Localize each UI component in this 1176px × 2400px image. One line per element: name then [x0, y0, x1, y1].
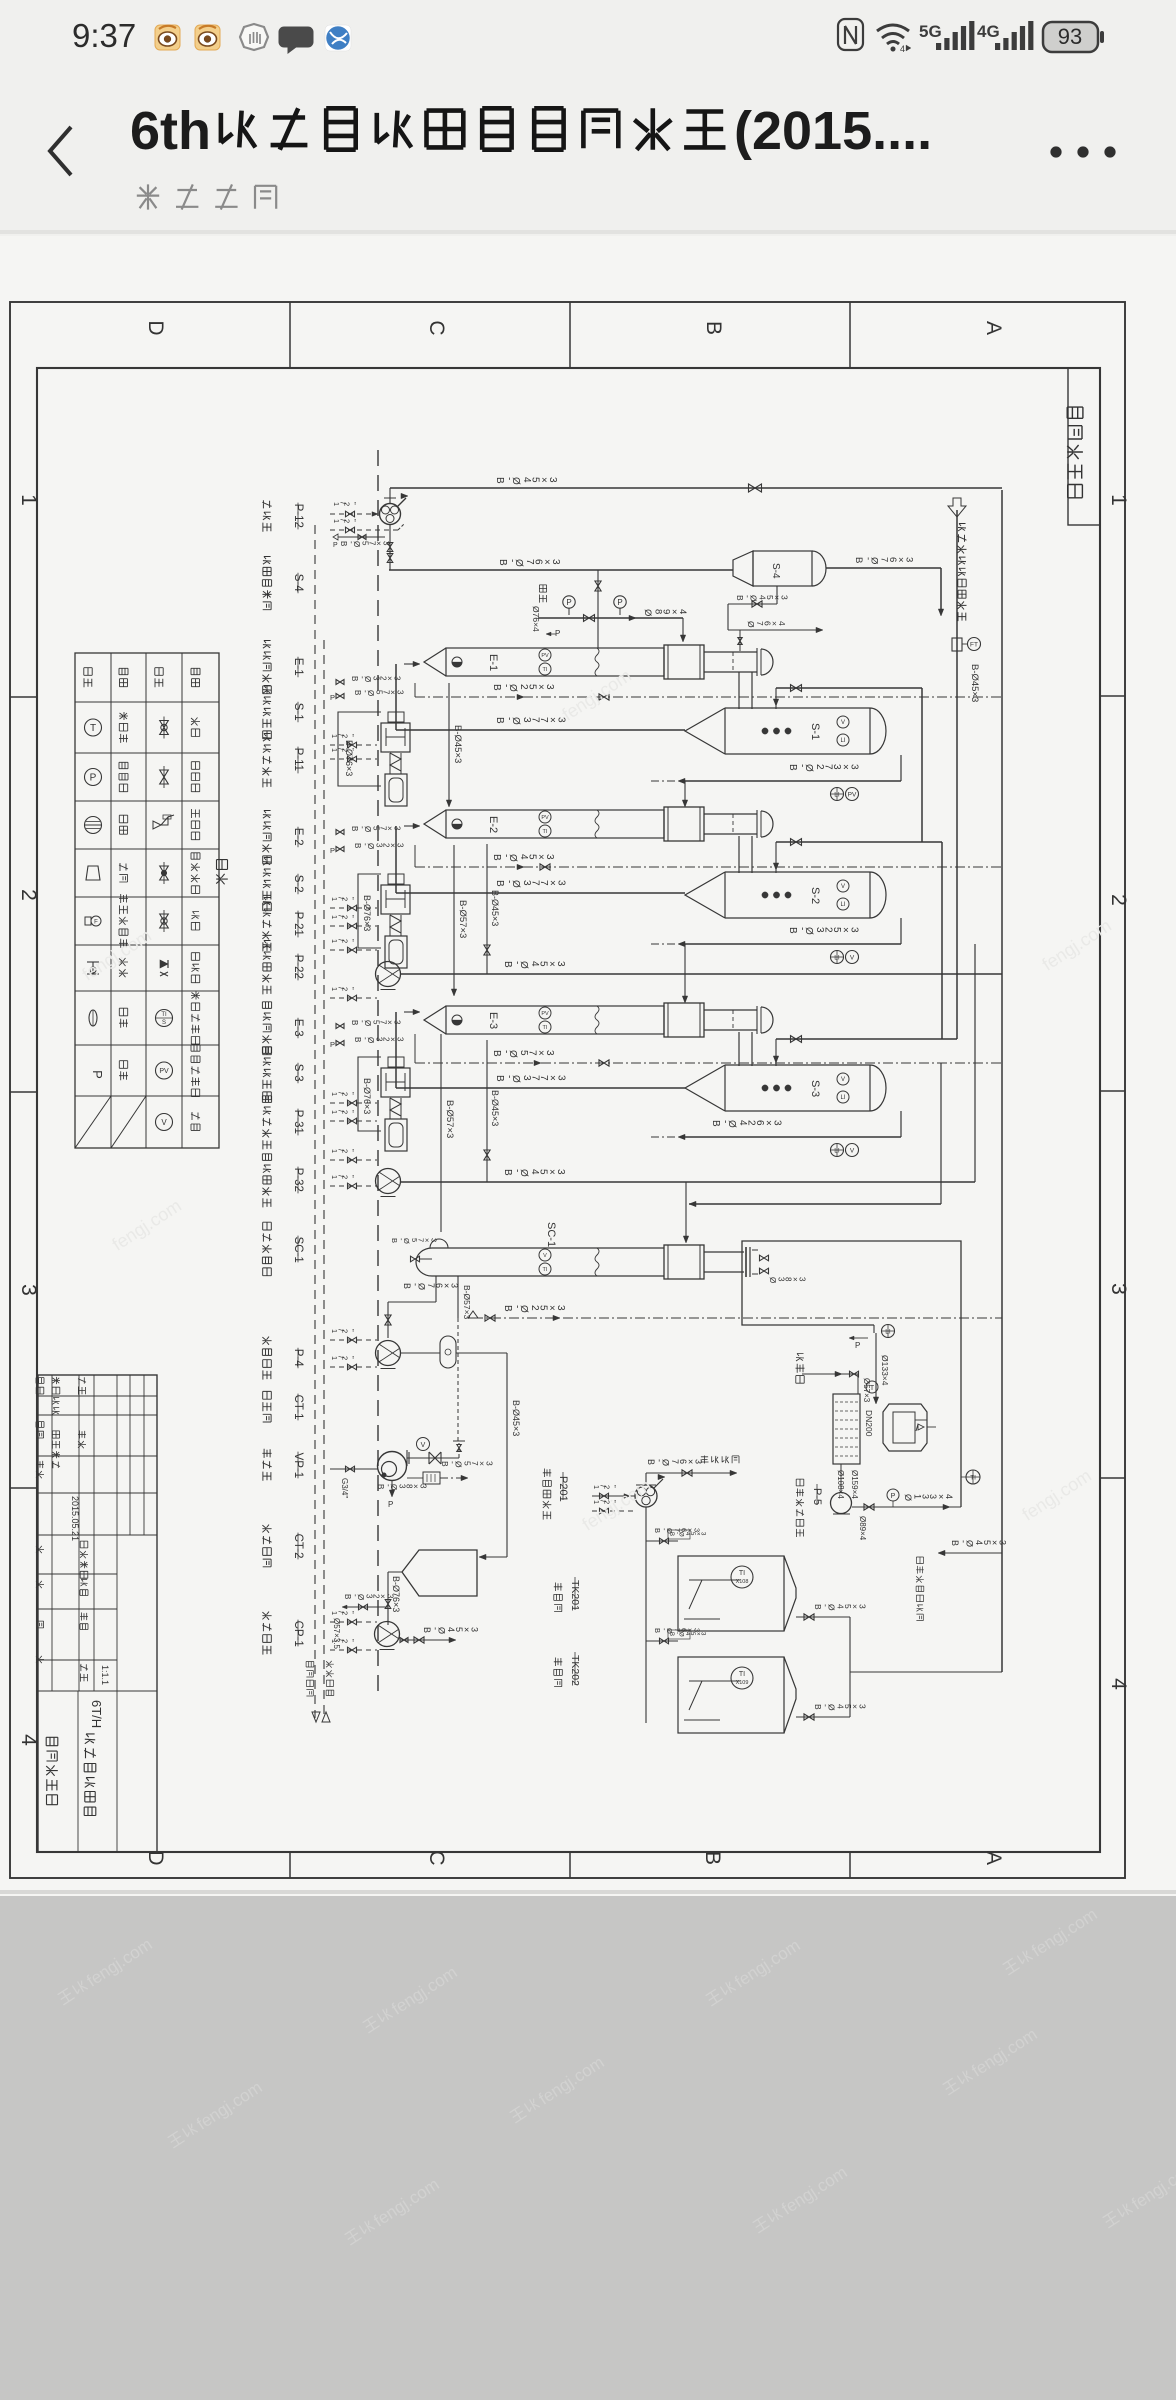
- svg-text:6th: 6th: [130, 101, 211, 161]
- wire cooling return upper: [689, 1203, 941, 1205]
- flush lines P201: [592, 1495, 635, 1497]
- wire hotwell to tower: [875, 1333, 877, 1400]
- svg-text:PV: PV: [541, 815, 549, 821]
- wire feed line vertical: [956, 510, 958, 1039]
- wire S4 return branch to E-1 duct: [739, 630, 741, 651]
- wire E-1 sample B-25: [414, 683, 416, 697]
- svg-text:B-Ø76×3: B-Ø76×3: [362, 895, 372, 931]
- svg-text:T: T: [90, 723, 96, 734]
- VP-1 suction: [330, 1468, 378, 1470]
- primary water line 一次水: [796, 1354, 805, 1384]
- separator S-3: [685, 1065, 725, 1111]
- wire B-76 to S-4: [389, 569, 733, 571]
- svg-text:B-Ø76×3: B-Ø76×3: [362, 1078, 372, 1114]
- svg-text:P: P: [566, 598, 571, 607]
- battery 93: [1043, 22, 1104, 52]
- svg-text:C: C: [425, 320, 448, 335]
- svg-text:LI: LI: [840, 1095, 845, 1101]
- title block small texts: [36, 1378, 44, 1394]
- wire S-4 outlet B-76: [826, 567, 941, 569]
- title block drawing name: [46, 1737, 58, 1804]
- wire CP-1 discharge: [400, 1639, 453, 1641]
- cooling tower fan unit: [883, 1404, 927, 1451]
- title block grid: [38, 1375, 157, 1852]
- screw pump P-11: [388, 712, 404, 722]
- title strip box 工艺流程图: [1068, 368, 1100, 525]
- svg-text:TI: TI: [161, 1012, 167, 1018]
- svg-text:S-2: S-2: [809, 887, 821, 904]
- screw pump P-31: [388, 1057, 404, 1067]
- icon 5G signal: [919, 21, 974, 50]
- pump P-12 lobe: [380, 504, 401, 525]
- svg-text:B: B: [702, 321, 725, 335]
- vacuum pump VP-1: [378, 1452, 407, 1481]
- svg-text:F: F: [94, 920, 98, 926]
- wire P-5 discharge: [852, 1506, 961, 1508]
- flush lines P-31: [330, 1102, 377, 1104]
- wire B-45 main cooling header vertical: [1001, 490, 1003, 1672]
- screw pump P-21: [388, 874, 404, 884]
- steam line: [538, 617, 683, 619]
- svg-text:6T/H: 6T/H: [89, 1700, 104, 1728]
- wire S-3 vent: [775, 1039, 777, 1066]
- wire S4 vapor drop: [940, 568, 942, 610]
- svg-text:E-1: E-1: [487, 654, 499, 671]
- instruments S-1 transfer: [831, 788, 844, 801]
- wire to SC-1 head: [685, 1182, 687, 1241]
- svg-text:P: P: [891, 1493, 896, 1500]
- svg-text:T: T: [870, 1385, 875, 1392]
- icon wifi: [877, 25, 911, 54]
- wire CT-2 outlet: [388, 1571, 402, 1573]
- svg-text:TI: TI: [543, 1025, 548, 1031]
- VP-1 top nozzle relief: [407, 1457, 459, 1459]
- wire S2 vent drop: [941, 842, 943, 1039]
- svg-text:X109: X109: [736, 1680, 749, 1686]
- subtitle 文件预览: [137, 184, 276, 209]
- svg-text:1: 1: [1107, 494, 1130, 506]
- svg-text:S: S: [162, 1020, 166, 1026]
- svg-text:S-4: S-4: [770, 563, 781, 579]
- zone ticks right: [1100, 695, 1125, 697]
- svg-text:B-Ø45×3: B-Ø45×3: [511, 1400, 521, 1436]
- TK201 outlet: [796, 1616, 850, 1618]
- label steam 蒸汽: [539, 585, 546, 603]
- SC-1 vent valves: [760, 1255, 769, 1261]
- svg-text:B-Ø57×3: B-Ø57×3: [457, 900, 468, 938]
- wire steam condensate E1-E2 B-45: [448, 683, 450, 803]
- outer border frame: [10, 302, 1125, 1878]
- cooling tower CT-2: [402, 1550, 477, 1596]
- wire condensate E2-E3 B-57: [453, 845, 455, 992]
- svg-text:TI: TI: [543, 1267, 548, 1273]
- wire S-3 transfer B-426: [900, 1111, 902, 1137]
- legend header row: [84, 668, 92, 688]
- instruments S-3 transfer: [831, 1144, 844, 1157]
- feed inlet arrow: [948, 498, 966, 517]
- wire S-3 circulation B-377: [396, 1087, 685, 1089]
- svg-text:V: V: [421, 1442, 426, 1449]
- svg-text:P: P: [855, 1341, 860, 1350]
- svg-text:V: V: [161, 1118, 167, 1127]
- svg-text:DN200: DN200: [864, 1410, 874, 1437]
- wire sample B-25 bottom: [468, 1311, 478, 1318]
- wire P-32 discharge B-45: [401, 1181, 975, 1183]
- flow transmitter FT: [952, 638, 962, 651]
- TK202 outlet: [796, 1716, 850, 1718]
- vessel CT-1: [440, 1336, 456, 1368]
- svg-text:1:1.1: 1:1.1: [100, 1665, 110, 1685]
- svg-text:LI: LI: [840, 902, 845, 908]
- svg-text:P: P: [330, 1040, 335, 1049]
- svg-text:TI: TI: [739, 1570, 745, 1577]
- zone ticks left: [10, 696, 37, 698]
- wire S-4 drain: [776, 586, 778, 604]
- svg-text:V: V: [850, 1148, 855, 1155]
- hot well drain instrument: [882, 1325, 895, 1338]
- svg-text:SC-1: SC-1: [545, 1222, 557, 1247]
- battery limit dashed line main: [377, 450, 379, 1700]
- icon 4G signal: [977, 21, 1033, 50]
- svg-text:S-1: S-1: [809, 723, 821, 740]
- svg-text:B-Ø57×3: B-Ø57×3: [444, 1100, 455, 1138]
- flush lines P-4: [330, 1339, 377, 1341]
- wire E-3 duct to S-3: [738, 1032, 740, 1066]
- instrument on cooling header: [966, 1470, 980, 1484]
- svg-text:4: 4: [17, 1734, 40, 1746]
- legend title 图样: [216, 860, 228, 885]
- boundary line arrows bottom: [312, 1712, 320, 1722]
- wire E-2 drain to P22 line: [486, 844, 488, 974]
- icon blue globe: [325, 25, 351, 51]
- flush lines P-22: [330, 949, 377, 951]
- svg-text:4: 4: [1107, 1678, 1130, 1690]
- wire E-3 sample B-57: [414, 1034, 416, 1063]
- svg-text:93: 93: [1058, 24, 1082, 49]
- evaporator E-2: [424, 810, 446, 838]
- svg-text:V: V: [841, 1077, 845, 1083]
- suction loop P-21 B-76: [358, 874, 381, 948]
- emoji icon eye1: [155, 25, 180, 50]
- svg-text:TI: TI: [739, 1671, 745, 1678]
- svg-text:V: V: [841, 884, 845, 890]
- svg-text:3: 3: [1107, 1283, 1130, 1295]
- svg-text:V: V: [850, 955, 855, 962]
- evaporator E-3: [424, 1006, 446, 1034]
- svg-text:S-3: S-3: [809, 1080, 821, 1097]
- back chevron: [50, 127, 71, 175]
- svg-text:B-Ø76×3: B-Ø76×3: [344, 740, 354, 776]
- wire cooling return riser: [974, 944, 976, 1182]
- tank TK201: [678, 1556, 784, 1631]
- icon chat bubble: [279, 27, 313, 53]
- svg-text:B: B: [701, 1851, 724, 1865]
- svg-text:P: P: [617, 598, 622, 607]
- svg-text:X108: X108: [736, 1579, 749, 1585]
- wire E-3 drain to P32 line: [486, 1040, 488, 1182]
- svg-text:4G: 4G: [977, 22, 1000, 41]
- inner border frame: [37, 368, 1100, 1852]
- svg-text:D: D: [144, 320, 167, 335]
- pump P-4: [376, 1341, 401, 1366]
- svg-text:Ø159×4: Ø159×4: [850, 1470, 859, 1499]
- legend names col4: [191, 718, 200, 737]
- evaporator E-1: [424, 648, 446, 676]
- svg-text:TI: TI: [543, 667, 548, 673]
- condenser SC-1: [416, 1248, 432, 1276]
- wire P201 to tanks: [645, 1507, 647, 1723]
- VP-1 drain B-38: [391, 1481, 393, 1494]
- wire P-12 flush lines: [330, 513, 372, 515]
- pump P-5: [831, 1493, 852, 1514]
- svg-text:P: P: [388, 1500, 393, 1509]
- SC-1 right flange: [745, 1247, 747, 1277]
- legend instrument symbols col1: [85, 719, 102, 736]
- TK201 inlet: [646, 1540, 678, 1542]
- flush lines CP-1: [330, 1621, 377, 1623]
- svg-text:PV: PV: [541, 653, 549, 659]
- pump P201 lobe: [635, 1485, 657, 1507]
- legend names col2: [119, 712, 128, 743]
- svg-text:V: V: [543, 1253, 547, 1259]
- wire S1 vent drop: [921, 688, 923, 842]
- icon hand heptagon: [240, 24, 268, 50]
- wire E-2 duct to S-2: [738, 836, 740, 873]
- wire tank collector: [849, 1617, 851, 1717]
- svg-text:P: P: [333, 542, 338, 549]
- vessel S-4 flash tank: [733, 551, 753, 586]
- svg-text:G3/4": G3/4": [340, 1478, 349, 1498]
- zone ticks top: [289, 302, 291, 368]
- label B-57 at P-12: [338, 536, 385, 538]
- legend blank slashes: [75, 1096, 111, 1148]
- wire E-1 duct to S-1: [738, 672, 740, 709]
- svg-text:PV: PV: [159, 1068, 169, 1075]
- instruments S-2 transfer: [831, 951, 844, 964]
- svg-text:1: 1: [17, 494, 40, 506]
- wire cooling water return stub: [942, 1552, 1002, 1554]
- svg-text:P: P: [330, 846, 335, 855]
- icon NFC: [838, 19, 863, 50]
- svg-text:2: 2: [1107, 894, 1130, 906]
- emoji icon eye2: [195, 25, 220, 50]
- hot well boundary: [742, 1241, 961, 1507]
- TK202 inlet: [646, 1640, 678, 1642]
- suction loop P-31 B-76: [358, 1057, 381, 1131]
- pump CP-1: [375, 1622, 400, 1647]
- pump P-22: [376, 962, 401, 987]
- svg-text:9:37: 9:37: [72, 17, 136, 54]
- svg-text:P: P: [90, 773, 97, 784]
- watermarks footer: [56, 1935, 156, 2009]
- VP-1 silencer discharge: [423, 1472, 440, 1484]
- svg-text:FT: FT: [970, 642, 978, 649]
- svg-text:P: P: [555, 629, 560, 638]
- wire S-2 transfer B-325: [900, 918, 902, 944]
- svg-text:4: 4: [900, 44, 905, 54]
- wire B-32 blowdown: [345, 1606, 388, 1608]
- svg-text:A: A: [982, 321, 1005, 335]
- tank TK202: [678, 1657, 784, 1733]
- svg-text:LI: LI: [840, 738, 845, 744]
- svg-text:Ø76×4: Ø76×4: [531, 606, 541, 632]
- flush lines P-32: [330, 1159, 377, 1161]
- wire S-1 circulation B-377: [900, 730, 902, 755]
- wire P201 discharge 去后处理: [645, 1473, 647, 1485]
- wire S-2 vent: [775, 842, 777, 873]
- wire P-12 down to B76: [389, 525, 391, 571]
- svg-text:PV: PV: [848, 792, 857, 799]
- wire E-1 vent to B76: [597, 570, 599, 648]
- svg-text:V: V: [841, 720, 845, 726]
- wire P-4 discharge to CT-2: [456, 1352, 507, 1354]
- svg-text:P: P: [330, 693, 335, 702]
- battery limit dashed line A: [314, 525, 316, 1718]
- svg-text:B-Ø45×3: B-Ø45×3: [452, 725, 463, 763]
- flush lines P-21: [330, 907, 377, 909]
- legend valve symbols col3: [160, 721, 169, 735]
- suction loop P-11 B-76: [338, 712, 381, 786]
- separator S-2: [685, 872, 725, 918]
- svg-text:TI: TI: [543, 829, 548, 835]
- svg-text:E-2: E-2: [487, 816, 499, 833]
- wire S-1 transfer B-273: [900, 755, 902, 781]
- separator S-1: [685, 708, 725, 754]
- svg-text:(2015....: (2015....: [734, 101, 932, 161]
- pump P-32: [376, 1169, 401, 1194]
- svg-text:B-Ø45×3: B-Ø45×3: [490, 1090, 500, 1126]
- wire E-2 sample B-45: [414, 845, 416, 867]
- wire SC-1 drain B-57: [457, 1276, 459, 1318]
- svg-text:E-3: E-3: [487, 1012, 499, 1029]
- wire P-22 discharge B-45: [401, 973, 1002, 975]
- svg-text:C: C: [425, 1850, 448, 1865]
- svg-text:PV: PV: [541, 1011, 549, 1017]
- zone ticks bottom: [289, 1852, 291, 1878]
- menu dots: [1051, 147, 1062, 158]
- wire SC-1 hotwell B-76: [435, 1276, 437, 1302]
- flush lines P-11: [330, 744, 377, 746]
- wire B-45 top header: [390, 487, 1002, 489]
- svg-text:B-Ø45×3: B-Ø45×3: [490, 890, 500, 926]
- svg-text:Ø133×4: Ø133×4: [880, 1355, 890, 1386]
- svg-text:2: 2: [17, 889, 40, 901]
- water pool: [833, 1394, 860, 1464]
- wire S-2 circulation B-377: [396, 892, 685, 894]
- legend table grid: [75, 653, 219, 1148]
- wire S-1 vent: [775, 688, 777, 709]
- SC-1 left inlet valve: [411, 1256, 420, 1262]
- feed label 糖浆来自糖化出料泵: [958, 524, 967, 622]
- svg-text:3: 3: [17, 1284, 40, 1296]
- svg-text:A: A: [982, 1851, 1005, 1865]
- svg-text:P: P: [90, 1070, 105, 1079]
- svg-text:2015.05.21: 2015.05.21: [70, 1496, 80, 1541]
- svg-text:5G: 5G: [919, 22, 942, 41]
- wire condensate E3-SC1 B-57: [440, 1034, 442, 1232]
- battery limit dashed line B: [323, 640, 325, 1718]
- svg-text:Ø89×4: Ø89×4: [858, 1516, 867, 1541]
